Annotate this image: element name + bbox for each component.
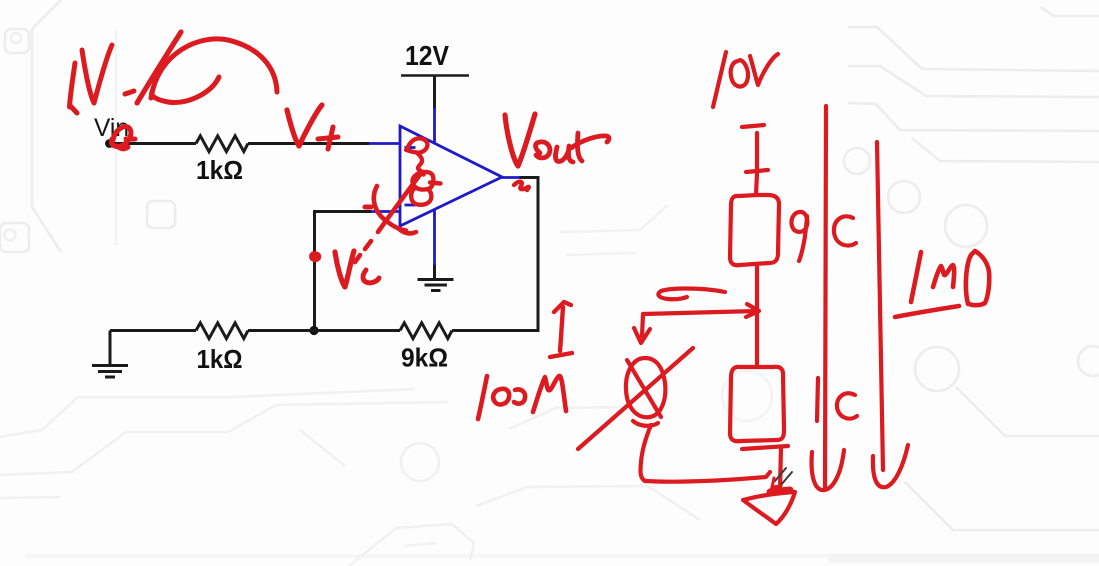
current arrow I head (554, 302, 571, 312)
label Vout letter V (505, 114, 535, 166)
svg-text:12V: 12V (405, 40, 449, 71)
svg-text:1kΩ: 1kΩ (197, 344, 243, 374)
dark tick marks (775, 468, 792, 485)
sketch label 10V (713, 52, 778, 107)
12V rail stub (433, 76, 436, 110)
resistor R3 zigzag (400, 323, 452, 339)
sketch long arrow 2 shaft (877, 142, 883, 470)
arrow dome arc (151, 39, 277, 98)
note dash after 1V (125, 91, 134, 94)
current arrow I serif (550, 353, 572, 357)
sketch label 1mA (911, 251, 989, 305)
sketch circle X stroke long (578, 348, 693, 449)
bottom wire middle (248, 329, 400, 332)
scribble R on opamp (406, 138, 427, 174)
op-amp U1 triangle (400, 126, 502, 226)
current arrow I shaft (560, 307, 563, 351)
sketch long arrow 2 hook (873, 445, 908, 487)
scribble loops on opamp (411, 172, 440, 205)
X dashes lower-left (355, 241, 371, 262)
sketch curl arrow (658, 289, 725, 300)
label 100m digit 0 (493, 389, 509, 405)
op-amp minus marker (405, 204, 416, 207)
dot-dash left of X (365, 205, 371, 210)
label Vout letter o (536, 142, 550, 158)
note V+ plus sign (318, 127, 338, 149)
tick red tip (772, 478, 781, 487)
arrow bottom curl (152, 77, 219, 102)
arrow slash stroke (137, 32, 181, 103)
sketch label 1k (817, 378, 857, 421)
node junction dot (309, 326, 318, 335)
Vin node dot (105, 139, 114, 148)
sketch supply tick (742, 125, 764, 127)
sketch long arrow 1 shaft (825, 106, 826, 487)
wire blue into plus input (369, 142, 400, 145)
op-amp plus marker (405, 142, 416, 153)
CIRCUIT-BLACK (92, 40, 540, 377)
squiggle at output (514, 182, 529, 190)
output wire black part (519, 176, 540, 179)
op-amp ground stub black (433, 264, 436, 280)
svg-text:9kΩ: 9kΩ (401, 343, 448, 373)
label 100m digit 1 (478, 376, 487, 419)
label Vout letter u (555, 146, 573, 162)
sketch source I (746, 133, 768, 194)
supply stub blue (433, 108, 436, 144)
note 1V letter V (82, 45, 112, 103)
sketch wire box2-ground (780, 447, 781, 491)
red node dot Vc (311, 253, 319, 260)
sketch resistor box2 (730, 367, 784, 441)
OPAMP-BLUE (369, 108, 520, 265)
wire R1 to op-amp (248, 142, 369, 145)
sketch ground triangle (743, 492, 795, 524)
12V rail bar (401, 74, 469, 77)
note V+ letter V (287, 105, 322, 146)
feedback wire horizontal (315, 212, 372, 330)
sketch circle bottom smile (633, 421, 658, 426)
sketch drop wire left (640, 425, 651, 481)
sketch wire box1-junction (755, 266, 759, 311)
label Vout letter t (571, 133, 609, 161)
bottom wire right (452, 178, 538, 331)
sketch long arrow 1 hook (812, 450, 844, 490)
sketch circle X stroke short (627, 360, 661, 417)
sketch 1mA underline (895, 306, 959, 317)
svg-text:1kΩ: 1kΩ (196, 155, 243, 185)
sketch box2 bottom bar (742, 446, 788, 449)
sketch crossed circle (626, 358, 665, 417)
sketch wire junction-box2 (755, 313, 759, 365)
scribble at Vin node (111, 127, 135, 149)
label 100m digit 0b (514, 389, 525, 403)
X tail under (398, 228, 416, 233)
X cross stroke b (378, 172, 422, 232)
ground left symbol (92, 366, 128, 378)
label Vc letter c (363, 270, 379, 283)
wire blue into minus input (371, 210, 400, 213)
label Vc letter V (335, 251, 354, 287)
note 1V digit 1 (70, 63, 78, 113)
sketch branch down arrow (634, 314, 650, 343)
resistor R1 zigzag (196, 136, 248, 152)
ground left stub (109, 331, 112, 366)
sketch label 9k (791, 212, 856, 261)
RED-ANNOTATIONS (70, 32, 990, 524)
ground stub blue (433, 209, 436, 265)
tick double slash (775, 468, 792, 485)
wire Vin to R1 (109, 142, 196, 145)
sketch junction arrow right (643, 304, 759, 317)
X cross stroke a (374, 186, 406, 231)
label 100m letter m (533, 376, 566, 412)
sketch ground blob (770, 490, 790, 492)
output stub blue (501, 176, 520, 179)
sketch resistor box1 (730, 195, 779, 265)
resistor R2 zigzag (196, 323, 248, 339)
sketch bottom wire (645, 472, 770, 482)
op-amp ground symbol (418, 280, 454, 291)
bottom wire left (110, 329, 196, 332)
